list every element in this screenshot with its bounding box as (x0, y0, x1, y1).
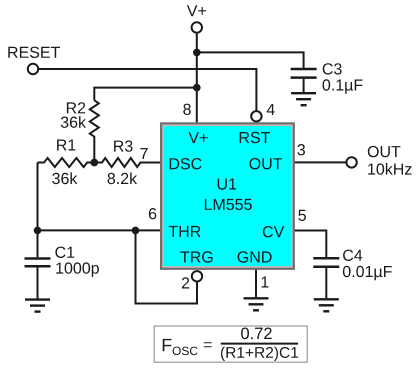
pin number 7 (140, 148, 147, 159)
node RESET label (8, 47, 60, 58)
designator U1 (218, 179, 236, 190)
ground below C3 (291, 93, 316, 105)
pin number 2 (182, 277, 189, 288)
ground below pin 1 (244, 298, 269, 310)
part LM555 (205, 199, 252, 210)
value R1 36k (52, 172, 77, 184)
pin label RST (240, 132, 270, 143)
junction V+/C3 (193, 49, 201, 57)
resistor R1 (38, 158, 95, 167)
wire R1 left riser (37, 163, 39, 231)
terminal V+ (192, 22, 202, 32)
label R1 (57, 140, 75, 151)
wire pin 1 to ground (255, 270, 257, 298)
value C4 0.01uF (343, 266, 392, 281)
label C1 (55, 247, 74, 258)
pin label DSC (170, 158, 202, 169)
wire pin 5 to C4 (295, 231, 327, 258)
label R3 (114, 140, 132, 151)
wire V+ to R2 top (94, 88, 197, 101)
terminal RESET (28, 64, 38, 74)
pin label THR (169, 226, 201, 237)
pin label V+ (189, 132, 208, 143)
junction V+/R2 (193, 84, 201, 92)
pin number 3 (297, 144, 305, 155)
pin 2 circle (TRG) (192, 271, 202, 281)
formula denominator (R1+R2)C1 (221, 347, 298, 361)
label R2 (67, 102, 85, 113)
wire V+ riser to pin 8 (196, 34, 198, 123)
timer IC U1 LM555 body (160, 122, 295, 270)
wire V+ to C3 (197, 52, 304, 68)
formula box (154, 326, 307, 362)
value C1 1000p (56, 262, 99, 277)
pin label GND (238, 251, 272, 262)
capacitor C4 (313, 258, 339, 299)
junction R1/R2/R3 (90, 159, 98, 167)
node OUT label (368, 146, 401, 157)
formula numerator 0.72 (241, 328, 272, 340)
wire TRG branch (136, 230, 198, 303)
junction C1/THR (34, 227, 42, 235)
pin number 1 (262, 277, 269, 288)
wire pin 3 to OUT terminal (295, 161, 347, 163)
formula equals (204, 342, 212, 347)
pin label TRG (180, 251, 212, 262)
capacitor C3 (291, 69, 317, 93)
ground below C1 (25, 300, 50, 312)
node V+ label (187, 5, 206, 16)
wire THR pin 6 (38, 229, 162, 231)
resistor R2 (90, 100, 99, 162)
pin 4 circle (RST) (251, 111, 261, 121)
formula fraction bar (221, 343, 298, 345)
formula F (163, 339, 172, 351)
label C4 (343, 250, 362, 261)
ground below C4 (314, 299, 339, 311)
terminal OUT (346, 157, 356, 167)
resistor R3 (94, 158, 161, 167)
pin number 4 (267, 104, 275, 115)
pin label CV (263, 226, 284, 237)
formula OSC subscript (173, 347, 198, 356)
pin number 6 (149, 208, 156, 219)
wire RESET to pin 4 (38, 69, 256, 111)
value C3 0.1uF (323, 79, 363, 94)
capacitor C1 (25, 230, 51, 299)
node OUT 10kHz (368, 163, 411, 175)
label C3 (323, 63, 342, 74)
value R3 8.2k (108, 172, 138, 184)
pin number 8 (183, 104, 191, 115)
junction THR/TRG (132, 227, 140, 235)
pin label OUT (250, 158, 283, 169)
pin number 5 (298, 210, 306, 221)
value R2 36k (61, 116, 86, 128)
